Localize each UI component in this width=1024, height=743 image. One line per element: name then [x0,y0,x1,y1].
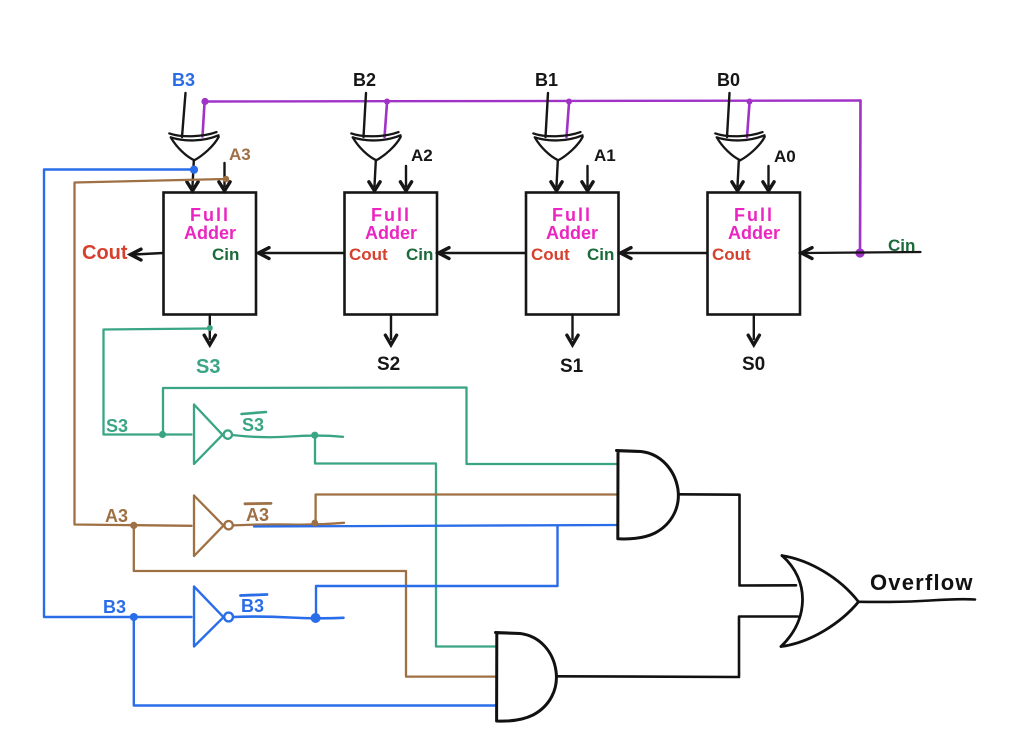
wire: blue B3-bar line into AND1 [254,525,617,527]
wire: blue B3 branch down to AND2 [134,618,496,706]
svg-text:Full: Full [190,205,230,225]
node: blue junction on U3 output [311,613,321,623]
svg-text:S2: S2 [377,354,400,375]
XOR gate X3 [169,132,218,160]
wire: purple bus horizontal [205,101,861,102]
node: green junction before inverter [159,431,166,438]
XOR gate X2 [351,132,400,160]
label S3-bar [242,412,267,435]
wire: green S3 branch up-over to AND1 [163,388,617,465]
wire: XOR X1 output into FA1 with arrowhead [551,161,562,191]
wire: carry FA2 to FA3 with arrowhead [259,248,345,259]
svg-text:Cout: Cout [349,245,388,264]
inverter U2 (A3, brown) [194,496,233,557]
svg-text:A3: A3 [246,505,269,525]
svg-text:A2: A2 [411,146,433,165]
svg-text:S3: S3 [242,415,264,435]
label FA2 Full Adder [365,205,417,243]
svg-text:A3: A3 [229,145,251,164]
wire: B1 input line [546,93,549,137]
wire: B0 input line [727,93,730,137]
wire: purple drop into XOR X2 [385,103,388,137]
wire: AND1 output to OR top input [679,494,797,585]
svg-text:B3: B3 [241,596,264,616]
svg-text:S3: S3 [196,356,220,378]
AND gate G1 (top) [617,451,679,539]
wire: green S3 tap to inverter row [104,329,210,435]
svg-text:Overflow: Overflow [870,570,974,595]
label FA0 Full Adder [728,205,780,243]
node: purple junction B1 [566,99,572,105]
XOR gate X1 [533,132,582,160]
wire: blue B3-bar up-over to AND1 line [316,526,558,617]
svg-text:Adder: Adder [728,223,780,243]
AND gate G2 (bottom) [496,633,557,722]
wire: inverter U3 output [233,617,344,619]
svg-text:Cin: Cin [212,245,239,264]
svg-text:B2: B2 [353,70,376,90]
wire: purple drop into XOR X1 [567,103,570,137]
node: brown junction on U2 output [311,520,318,527]
wire: external Cin line with arrowhead into FA0 [802,248,921,259]
wire: XOR X3 output into FA3 with arrowhead [187,161,198,191]
full adder FA3 box [164,193,257,315]
wire: carry FA1 to FA2 with arrowhead [439,248,526,259]
node: blue junction before inverter [130,613,138,621]
node: green junction on U1 output [311,432,318,439]
svg-text:A0: A0 [774,147,796,166]
node: S3 tap (green) [207,325,213,331]
svg-text:B3: B3 [172,70,195,90]
node: purple junction at Cin [855,248,864,257]
label FA3 Full Adder [184,205,236,243]
wire: inverter U2 output [233,523,344,526]
svg-text:B1: B1 [535,70,558,90]
full adder FA1 box [526,193,619,315]
svg-text:Full: Full [371,205,411,225]
svg-text:Adder: Adder [546,223,598,243]
wire: A2 input line with arrowhead [400,166,411,191]
wire: S2 output with arrowhead [385,315,396,345]
wire: A0 input line with arrowhead [763,166,774,191]
wire: purple drop into XOR X0 [747,103,750,137]
svg-text:S1: S1 [560,356,584,377]
node: purple junction B2 [384,99,390,105]
node: B3 tap on XOR X3 output (blue) [190,166,198,174]
wire: Overflow output [859,599,976,602]
svg-text:Adder: Adder [365,223,417,243]
wire: B3 input line [182,93,186,137]
label FA1 Full Adder [546,205,598,243]
wire: blue tap from XOR X3 output to B3 inverter row [44,170,194,618]
wire: XOR X2 output into FA2 with arrowhead [369,161,380,191]
inverter U3 (B3, blue) [194,587,233,647]
wire: FA3 Cout arrow out left [131,249,164,260]
svg-text:Cin: Cin [406,245,433,264]
svg-text:B3: B3 [103,597,126,617]
node: purple junction B3 [201,98,208,105]
wire: green S3-bar to AND2 [315,436,496,647]
XOR gate X0 [715,132,764,160]
node: A3 tap (brown) on A3 input line [223,176,229,182]
wire: B2 input line [364,93,367,137]
wire: S3 output with arrowhead [204,315,215,345]
wire: brown A3 tap to inverter row [75,179,227,526]
label B3-bar [241,595,268,617]
wire: carry FA0 to FA1 with arrowhead [621,248,708,259]
wire: brown A3 branch down-over to AND2 [134,526,496,677]
wire: S1 output with arrowhead [567,315,578,345]
svg-text:Cin: Cin [888,236,915,255]
inverter U1 (S3, green) [194,405,232,465]
svg-text:Full: Full [552,205,592,225]
wire: AND2 output to OR bottom input [557,617,799,678]
wire: brown A3-bar up to AND1 [316,495,617,523]
full adder FA2 box [345,193,438,315]
svg-text:Cout: Cout [712,245,751,264]
OR gate G3 [781,556,859,647]
svg-text:Adder: Adder [184,223,236,243]
svg-text:B0: B0 [717,70,740,90]
svg-text:A3: A3 [105,506,128,526]
svg-text:S0: S0 [742,354,765,375]
svg-text:Full: Full [734,205,774,225]
node: purple junction B0 [747,99,753,105]
svg-text:Cout: Cout [531,245,570,264]
wire: S0 output with arrowhead [748,315,759,345]
svg-text:Cin: Cin [587,245,614,264]
svg-text:A1: A1 [594,146,616,165]
wire: A3 input line with arrowhead [219,163,230,191]
label A3-bar [245,503,271,525]
svg-text:Cout: Cout [82,242,128,264]
wire: purple bus vertical drop to Cin [859,101,862,254]
wire: purple drop into XOR X3 [203,103,205,137]
wire: inverter U1 output [232,435,343,437]
svg-text:S3: S3 [106,416,128,436]
wire: XOR X0 output into FA0 with arrowhead [732,161,743,191]
wire: A1 input line with arrowhead [582,166,593,191]
node: brown junction before inverter [130,522,137,529]
full adder FA0 box [708,193,801,315]
